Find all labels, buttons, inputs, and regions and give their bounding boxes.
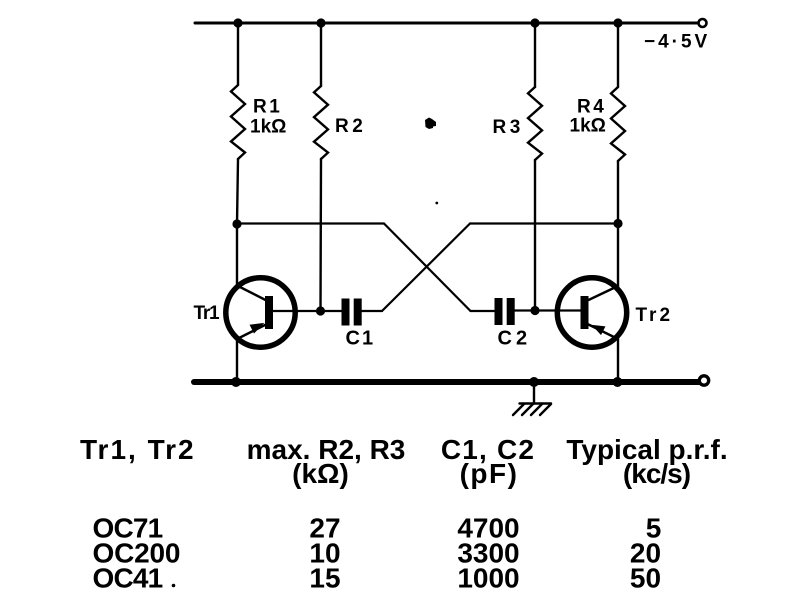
svg-text:(kc/s): (kc/s)	[623, 458, 690, 489]
speck after OC41	[172, 584, 176, 588]
svg-text:OC41: OC41	[93, 563, 163, 594]
svg-text:Tr1: Tr1	[194, 303, 221, 324]
wire Tr2 collector lead	[617, 224, 619, 287]
svg-text:C2: C2	[498, 328, 532, 350]
svg-text:1kΩ: 1kΩ	[250, 117, 286, 138]
svg-text:1000: 1000	[457, 563, 519, 594]
wire R4 to Tr2 collector node	[617, 161, 619, 224]
Tr2 emitter arrow (PNP)	[593, 326, 605, 335]
node Tr2 collector	[613, 219, 622, 228]
transistor Tr2	[557, 278, 626, 347]
wire rail to R4	[617, 23, 619, 87]
node top rail / R3	[530, 18, 539, 27]
speck dot	[435, 202, 438, 205]
node top rail / R4	[613, 18, 622, 27]
svg-text:50: 50	[630, 563, 661, 594]
node bottom rail / ground	[529, 377, 539, 387]
wire Tr2 base lead	[515, 309, 581, 311]
node Tr1 base	[316, 306, 325, 315]
output terminal bottom	[699, 376, 708, 385]
wire to C2 left plate	[471, 310, 495, 312]
svg-text:R1: R1	[253, 97, 282, 118]
svg-text:C1: C1	[346, 328, 376, 350]
node bottom rail / Tr2 emitter	[613, 377, 623, 387]
svg-text:R4: R4	[577, 97, 606, 118]
resistor R3	[528, 87, 542, 160]
node Tr1 collector	[232, 219, 241, 228]
svg-text:R2: R2	[335, 116, 366, 137]
ground	[513, 382, 551, 415]
wire Tr2 collector horizontal	[470, 222, 618, 224]
transistor Tr1	[226, 278, 295, 347]
svg-text:−4·5V: −4·5V	[644, 32, 710, 53]
wire diagonal Tr1 collector to C2	[384, 224, 471, 312]
wire Tr1 collector horizontal	[237, 222, 384, 224]
node bottom rail / Tr1 emitter	[231, 377, 241, 387]
svg-text:1kΩ: 1kΩ	[570, 116, 606, 137]
wire Tr1 emitter lead	[237, 325, 266, 340]
svg-text:(pF): (pF)	[460, 458, 519, 489]
capacitor C2	[495, 298, 503, 325]
capacitor C1	[342, 299, 350, 326]
wire C1 right plate out	[362, 310, 383, 312]
wire R1 to collector node	[237, 159, 238, 224]
wire bottom common rail	[194, 379, 699, 385]
Tr1 emitter arrow (PNP)	[250, 324, 263, 333]
svg-text:Tr2: Tr2	[636, 305, 674, 326]
wire R3 to Tr2 base node	[534, 160, 536, 311]
wire rail to R1	[237, 23, 239, 85]
wire Tr1 collector lead	[236, 224, 238, 286]
wire Tr1 base lead	[273, 310, 342, 312]
Tr1 base bar	[265, 296, 273, 329]
wire diagonal C1 to Tr2 collector	[382, 224, 470, 312]
wire Tr2 emitter lead	[589, 325, 619, 340]
svg-text:15: 15	[309, 563, 340, 594]
speck artifact (printed arrow mark)	[425, 118, 436, 130]
svg-text:(kΩ): (kΩ)	[292, 458, 349, 489]
svg-text:R3: R3	[493, 117, 524, 138]
node top rail / R2	[316, 18, 325, 27]
wire R2 to Tr1 base node	[319, 159, 322, 311]
svg-text:Tr1, Tr2: Tr1, Tr2	[80, 434, 196, 465]
node top rail / R1	[233, 18, 242, 27]
wire rail to R2	[320, 23, 322, 86]
resistor R4	[611, 87, 625, 161]
node Tr2 base	[530, 306, 539, 315]
resistor R1	[231, 85, 245, 159]
battery terminal -4.5V	[699, 19, 707, 27]
Tr2 base bar	[581, 296, 589, 329]
wire rail to R3	[534, 23, 536, 87]
resistor R2	[314, 86, 328, 159]
wire top supply rail	[195, 22, 698, 25]
